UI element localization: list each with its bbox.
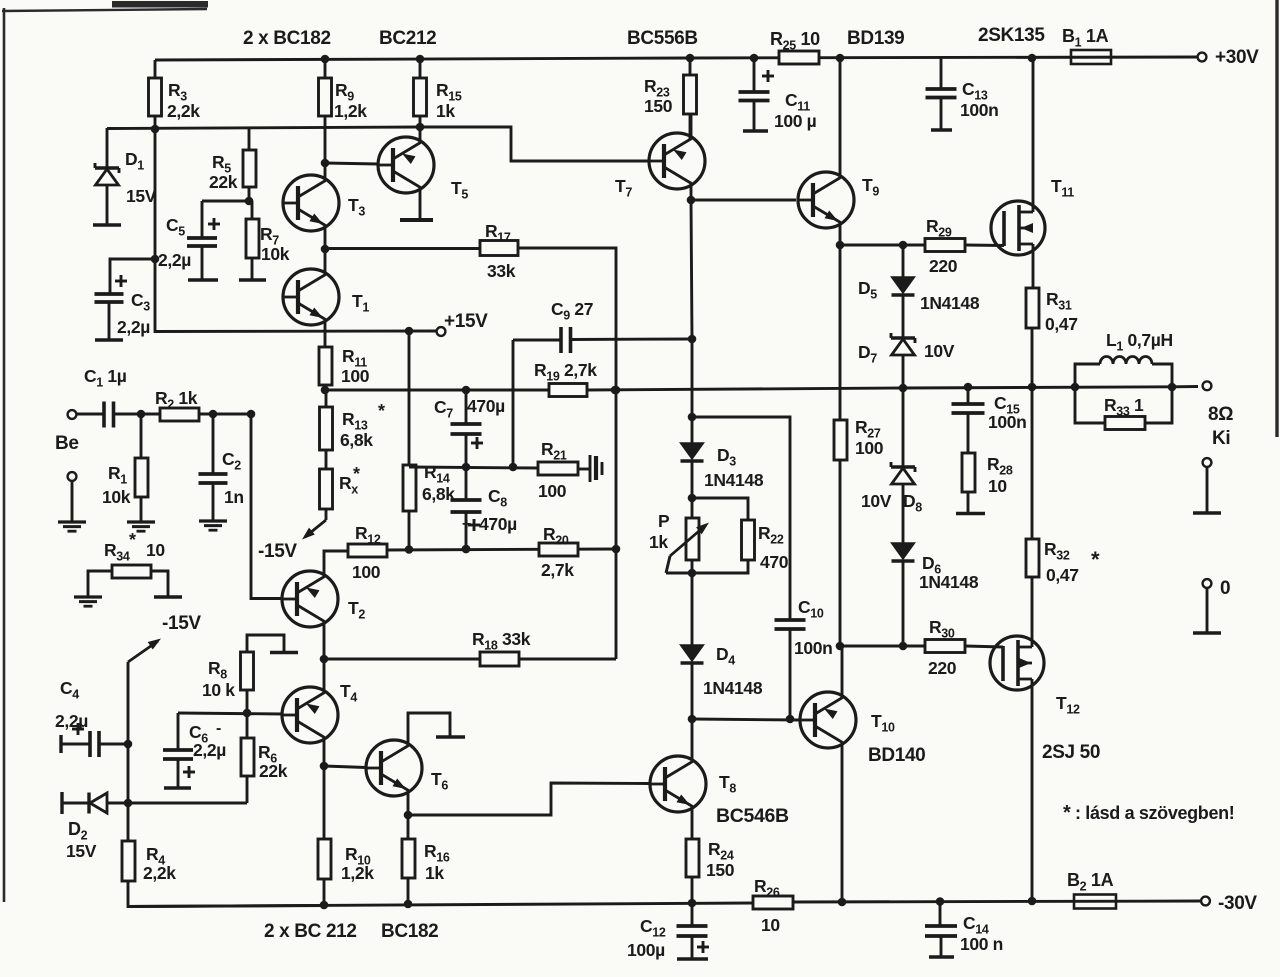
svg-text:R25 10: R25 10: [770, 29, 820, 53]
svg-text:100 µ: 100 µ: [774, 111, 817, 131]
svg-text:10: 10: [761, 915, 780, 935]
svg-text:Ki: Ki: [1212, 428, 1230, 449]
svg-text:2,2µ: 2,2µ: [193, 740, 226, 760]
svg-text:1,2k: 1,2k: [341, 863, 374, 883]
svg-text:10V: 10V: [861, 491, 892, 511]
svg-text:470µ: 470µ: [479, 514, 517, 534]
svg-text:15V: 15V: [126, 186, 157, 206]
svg-text:220: 220: [929, 256, 958, 276]
svg-text:R18 33k: R18 33k: [472, 629, 531, 653]
svg-text:L1 0,7µH: L1 0,7µH: [1106, 330, 1173, 354]
svg-text:6,8k: 6,8k: [340, 430, 373, 450]
svg-text:BC212: BC212: [379, 28, 436, 49]
svg-text:2,2k: 2,2k: [143, 863, 176, 883]
svg-text:BD140: BD140: [868, 745, 925, 766]
svg-text:1,2k: 1,2k: [334, 101, 367, 121]
svg-text:10k: 10k: [261, 244, 290, 264]
svg-text:10: 10: [988, 476, 1007, 496]
svg-text:6,8k: 6,8k: [422, 484, 455, 504]
svg-text:0,47: 0,47: [1046, 565, 1079, 585]
svg-text:1n: 1n: [224, 487, 244, 507]
svg-text:+30V: +30V: [1215, 47, 1259, 68]
svg-text:1N4148: 1N4148: [919, 572, 979, 592]
svg-text:100n: 100n: [960, 100, 999, 120]
svg-text:-30V: -30V: [1218, 893, 1257, 914]
svg-text:2SJ 50: 2SJ 50: [1042, 742, 1100, 763]
svg-text:2,2µ: 2,2µ: [117, 317, 150, 337]
svg-text:10k: 10k: [102, 487, 131, 507]
svg-text:100: 100: [352, 562, 381, 582]
svg-text:BC182: BC182: [381, 921, 438, 942]
svg-text:R19 2,7k: R19 2,7k: [534, 360, 597, 384]
svg-text:100: 100: [538, 481, 567, 501]
svg-text:1N4148: 1N4148: [704, 470, 764, 490]
svg-text:B1 1A: B1 1A: [1062, 26, 1109, 50]
svg-text:1N4148: 1N4148: [703, 678, 763, 698]
svg-text:+15V: +15V: [444, 311, 488, 332]
svg-text:2,2µ: 2,2µ: [158, 250, 191, 270]
svg-text:2 x BC 212: 2 x BC 212: [264, 921, 357, 942]
svg-text:470µ: 470µ: [467, 396, 505, 416]
svg-text:100µ: 100µ: [627, 940, 665, 960]
svg-text:C1 1µ: C1 1µ: [84, 366, 127, 390]
svg-text:1k: 1k: [649, 532, 668, 552]
svg-text:100: 100: [855, 438, 884, 458]
svg-text:0,47: 0,47: [1045, 314, 1078, 334]
svg-text:BC556B: BC556B: [627, 28, 698, 49]
svg-text:2,2k: 2,2k: [167, 101, 200, 121]
svg-text:*: *: [353, 464, 360, 484]
svg-text:1k: 1k: [436, 101, 455, 121]
svg-text:1N4148: 1N4148: [920, 293, 980, 313]
svg-text:*: *: [129, 530, 136, 550]
svg-text:BD139: BD139: [847, 28, 904, 49]
svg-text:B2 1A: B2 1A: [1067, 870, 1114, 894]
svg-text:0: 0: [1220, 578, 1230, 599]
svg-text:10V: 10V: [924, 341, 955, 361]
svg-text:470: 470: [760, 552, 789, 572]
svg-text:22k: 22k: [259, 761, 288, 781]
svg-text:100 n: 100 n: [960, 934, 1003, 954]
svg-text:10: 10: [146, 540, 165, 560]
svg-text:2 x BC182: 2 x BC182: [243, 28, 331, 49]
svg-text:2,7k: 2,7k: [541, 560, 574, 580]
svg-text:150: 150: [706, 860, 735, 880]
svg-text:1k: 1k: [425, 863, 444, 883]
svg-text:-15V: -15V: [162, 613, 201, 634]
svg-text:150: 150: [644, 96, 673, 116]
svg-text:33k: 33k: [487, 261, 516, 281]
svg-text:*: *: [1063, 802, 1071, 824]
svg-text:-15V: -15V: [258, 541, 297, 562]
svg-text:*: *: [1091, 547, 1100, 572]
svg-text:C9 27: C9 27: [551, 299, 593, 323]
svg-text:R2 1k: R2 1k: [155, 388, 198, 412]
svg-text:100n: 100n: [988, 412, 1027, 432]
svg-text:P: P: [658, 511, 670, 531]
svg-text:: lásd a szövegben!: : lásd a szövegben!: [1075, 803, 1234, 823]
svg-text:Be: Be: [55, 433, 79, 454]
svg-text:100n: 100n: [794, 638, 833, 658]
svg-text:8Ω: 8Ω: [1208, 404, 1233, 425]
svg-text:15V: 15V: [66, 841, 97, 861]
svg-text:22k: 22k: [209, 172, 238, 192]
svg-text:220: 220: [928, 658, 957, 678]
svg-text:-: -: [216, 720, 221, 737]
svg-text:100: 100: [341, 366, 370, 386]
svg-text:BC546B: BC546B: [716, 805, 789, 827]
svg-text:2SK135: 2SK135: [978, 25, 1045, 46]
svg-text:+: +: [462, 516, 471, 533]
svg-text:*: *: [378, 401, 385, 421]
svg-text:10 k: 10 k: [202, 680, 235, 700]
